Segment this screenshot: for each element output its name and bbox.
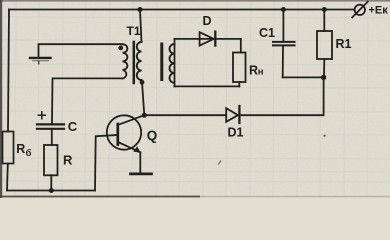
svg-text:C: C bbox=[68, 119, 78, 134]
wire base riser bbox=[95, 135, 118, 191]
svg-text:+Eк: +Eк bbox=[369, 5, 389, 17]
resistor Rn bbox=[233, 53, 246, 83]
transformer T1 feedback winding W2 bbox=[137, 42, 142, 80]
capacitor left plate bar bbox=[30, 57, 51, 59]
wire top rail bbox=[9, 9, 353, 11]
wire W2 top lead bbox=[140, 10, 142, 43]
resistor R1 bbox=[317, 31, 332, 59]
secondary loop bottom wire bbox=[175, 85, 240, 87]
wire left vertical bbox=[8, 10, 9, 132]
junction node R bottom rail bbox=[49, 188, 54, 193]
transformer core line 1 bbox=[133, 42, 136, 83]
svg-text:R: R bbox=[249, 63, 258, 77]
wire R to bottom rail bbox=[50, 175, 52, 190]
junction node collector bbox=[142, 113, 147, 118]
svg-text:C1: C1 bbox=[259, 26, 275, 40]
diode D1 cathode bar bbox=[238, 106, 240, 123]
svg-text:н: н bbox=[258, 66, 264, 77]
capacitor left lower plate bbox=[33, 60, 49, 62]
transformer core line 2 bbox=[160, 44, 163, 80]
capacitor left stub bbox=[38, 62, 40, 64]
wire C to R bbox=[51, 129, 53, 145]
capacitor C1 plates bbox=[273, 41, 295, 43]
resistor Rb bbox=[3, 132, 14, 164]
wire Rb to bottom rail bbox=[6, 164, 9, 191]
wire C1 bottom bbox=[283, 76, 324, 78]
wire bottom rail bbox=[7, 190, 95, 192]
plus sign of C bbox=[38, 112, 45, 119]
photo scan borders bbox=[0, 0, 390, 2]
svg-text:R1: R1 bbox=[336, 37, 352, 51]
speck bbox=[324, 135, 326, 137]
svg-text:D1: D1 bbox=[228, 126, 244, 140]
svg-text:R: R bbox=[63, 152, 73, 167]
wire loop right side bbox=[240, 39, 242, 53]
junction node C1/R1 bottom bbox=[321, 75, 326, 80]
ground bar bbox=[131, 173, 152, 176]
terminal slash bbox=[352, 2, 368, 18]
transformer secondary winding W3 bbox=[170, 44, 175, 83]
transistor base bar bbox=[116, 124, 119, 145]
emitter arrowhead bbox=[133, 146, 141, 152]
diode D triangle bbox=[200, 32, 214, 45]
transformer T1 primary winding W1 bbox=[123, 44, 128, 78]
resistor R bbox=[44, 145, 58, 175]
junction node C1 top bbox=[281, 7, 286, 12]
phase dot W2 bbox=[140, 80, 145, 85]
wire node to R1 bbox=[323, 59, 325, 77]
diode D1 triangle bbox=[226, 108, 238, 122]
wire C1 top lead bbox=[282, 10, 284, 42]
emitter wire to ground bbox=[139, 152, 141, 173]
junction node W2 top bbox=[138, 7, 143, 12]
junction node R1 top bbox=[322, 7, 327, 12]
phase dot W1 bbox=[118, 46, 123, 51]
diode D cathode bar bbox=[214, 32, 216, 46]
wire R1 top bbox=[323, 10, 325, 32]
terminal +Ek circle bbox=[355, 5, 365, 15]
wire W1 top lead bbox=[39, 44, 123, 57]
wire W1 bottom lead bbox=[52, 78, 123, 122]
emitter wire bbox=[118, 142, 140, 152]
svg-text:D: D bbox=[203, 14, 212, 28]
secondary winding W3 spine bbox=[174, 39, 176, 87]
svg-text:T1: T1 bbox=[127, 24, 141, 38]
capacitor C plates bbox=[37, 123, 64, 125]
wire collector node to D1 bbox=[144, 114, 226, 116]
speck bbox=[218, 161, 221, 165]
svg-text:R: R bbox=[16, 142, 25, 156]
wire W2 bottom to collector node bbox=[142, 82, 144, 115]
collector wire bbox=[118, 115, 144, 125]
transistor Q circle bbox=[107, 115, 141, 149]
wire D1 to C1/R1 node bbox=[239, 77, 323, 115]
svg-text:Q: Q bbox=[147, 128, 158, 143]
wire C1 lower lead bbox=[282, 45, 284, 77]
svg-text:б: б bbox=[26, 148, 32, 159]
secondary loop top wire bbox=[175, 38, 241, 40]
wire Rn bottom bbox=[238, 82, 240, 86]
